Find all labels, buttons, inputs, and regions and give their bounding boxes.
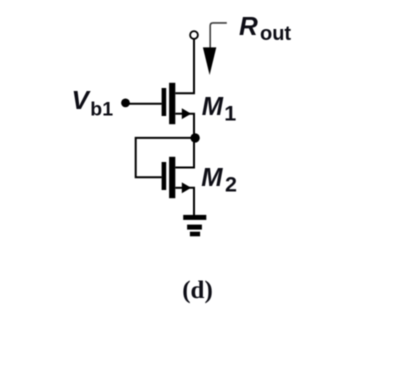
svg-text:(d): (d) [182,277,213,304]
svg-text:2: 2 [225,172,237,196]
svg-text:1: 1 [224,101,236,125]
svg-text:out: out [260,23,291,45]
svg-text:b1: b1 [90,99,113,121]
svg-text:V: V [72,85,92,115]
svg-text:R: R [239,11,258,41]
svg-text:M: M [202,93,224,121]
svg-text:M: M [201,164,223,192]
